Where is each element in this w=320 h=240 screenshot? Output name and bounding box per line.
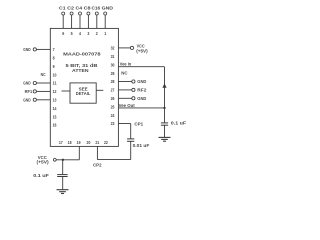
svg-text:ATTEN: ATTEN	[72, 68, 89, 73]
wire pin12 to SEE DETAIL box	[62, 90, 71, 92]
wire cap to ground (Vee rail)	[164, 125, 166, 137]
svg-text:32: 32	[111, 46, 115, 51]
terminal VCC +5V (pin 32)	[130, 46, 133, 49]
wire SEE DETAIL box to pin27	[96, 89, 103, 91]
svg-text:CP2: CP2	[93, 162, 102, 167]
svg-text:C8: C8	[84, 5, 92, 10]
wire CP2 horizontal	[97, 159, 130, 161]
terminal C1 (top)	[62, 12, 65, 15]
svg-text:19: 19	[77, 140, 81, 145]
wire CP1 vertical	[130, 124, 132, 139]
svg-text:Vee In: Vee In	[120, 61, 132, 66]
wire C16 to pin 2	[96, 15, 98, 28]
wire Vee In to rail	[118, 66, 164, 68]
arrow up on Vee rail	[162, 83, 166, 87]
terminal C2 (top)	[70, 12, 73, 15]
wire cap to ground (VCC)	[62, 177, 64, 190]
svg-text:24: 24	[111, 113, 115, 118]
wire pin32 to VCC terminal	[118, 47, 130, 49]
wire GND to pin 7	[36, 48, 50, 50]
wire C1 to pin 6	[62, 15, 64, 28]
wire to bottom VCC terminal	[56, 159, 79, 161]
terminal GND (pin 26)	[132, 97, 135, 100]
wire RF1 to pin 12	[36, 90, 50, 92]
terminal C8 (top)	[87, 12, 90, 15]
svg-text:25: 25	[111, 104, 115, 109]
terminal GND (pin 13)	[33, 98, 36, 101]
svg-text:(+5V): (+5V)	[37, 159, 50, 164]
wire GND to pin 13	[36, 99, 50, 101]
svg-text:14: 14	[53, 106, 57, 111]
capacitor 0.01 uF (CP1-CP2)	[127, 139, 134, 141]
svg-text:26: 26	[111, 96, 115, 101]
wire junction down to cap	[62, 160, 64, 175]
svg-text:13: 13	[53, 98, 57, 103]
wire C4 to pin 4	[79, 15, 81, 28]
svg-text:15: 15	[53, 114, 57, 119]
svg-text:Vee Out: Vee Out	[119, 103, 136, 108]
wire pin 21 CP2 vertical	[96, 146, 98, 159]
svg-text:(+5V): (+5V)	[136, 48, 148, 53]
svg-text:RF1: RF1	[25, 89, 33, 94]
svg-text:23: 23	[111, 121, 115, 126]
svg-text:0.1 uF: 0.1 uF	[171, 121, 187, 126]
terminal GND (pin 7)	[33, 48, 36, 51]
terminal RF1 (pin 12)	[33, 90, 36, 93]
terminal GND (top)	[104, 12, 107, 15]
wire Vee rail vertical	[164, 67, 166, 123]
terminal C16 (top)	[95, 12, 98, 15]
svg-text:GND: GND	[23, 47, 30, 52]
ground (VCC)	[57, 190, 69, 194]
svg-text:0.1 uF: 0.1 uF	[33, 173, 49, 178]
ground (Vee rail)	[159, 137, 171, 141]
svg-text:31: 31	[111, 54, 115, 59]
svg-text:0.01 uF: 0.01 uF	[133, 143, 150, 148]
svg-text:18: 18	[68, 140, 72, 145]
svg-text:11: 11	[53, 81, 57, 86]
wire pin 28 to GND terminal	[118, 81, 131, 83]
terminal RF2 (pin 27)	[132, 88, 135, 91]
terminal GND (pin 28)	[132, 80, 135, 83]
junction Vee Out / rail	[163, 107, 165, 109]
svg-text:GND: GND	[23, 81, 30, 86]
svg-text:NC: NC	[41, 72, 47, 77]
svg-text:GND: GND	[137, 79, 146, 84]
wire pin 26 to GND terminal	[118, 97, 131, 99]
svg-text:GND: GND	[102, 5, 113, 10]
svg-text:C1: C1	[59, 5, 66, 10]
wire C2 to pin 5	[71, 15, 73, 28]
svg-text:28: 28	[111, 79, 115, 84]
svg-text:CP1: CP1	[134, 121, 143, 126]
svg-text:GND: GND	[137, 96, 146, 101]
svg-text:22: 22	[104, 140, 108, 145]
inner box SEE DETAIL	[70, 83, 96, 103]
wire Vee Out to rail	[118, 107, 164, 109]
svg-text:29: 29	[111, 71, 115, 76]
svg-text:16: 16	[53, 123, 57, 128]
wire pin 19 down	[78, 146, 80, 159]
svg-text:30: 30	[111, 62, 115, 67]
wire pin 23 CP1 horizontal	[118, 123, 130, 125]
junction VCC / decoupling cap	[62, 159, 64, 161]
wire 0.01 uF cap down to corner	[130, 141, 132, 159]
svg-text:20: 20	[87, 140, 91, 145]
capacitor 0.1 uF (Vee rail)	[161, 123, 168, 125]
svg-text:12: 12	[53, 89, 57, 94]
terminal VCC +5V (bottom)	[53, 158, 56, 161]
svg-text:C2: C2	[67, 5, 75, 10]
svg-text:RF2: RF2	[137, 88, 147, 93]
svg-text:5 BIT, 31 dB: 5 BIT, 31 dB	[65, 63, 98, 68]
terminal C4 (top)	[79, 12, 82, 15]
svg-text:C4: C4	[76, 5, 83, 10]
svg-text:GND: GND	[23, 97, 30, 102]
svg-text:27: 27	[111, 88, 115, 93]
svg-text:DETAIL: DETAIL	[76, 91, 91, 96]
svg-text:C16: C16	[91, 5, 100, 10]
svg-text:21: 21	[95, 140, 99, 145]
svg-text:10: 10	[53, 72, 57, 77]
IC U1 main box	[50, 28, 118, 146]
svg-text:NC: NC	[121, 71, 128, 76]
svg-text:MAAD-007078: MAAD-007078	[63, 51, 101, 56]
terminal GND (pin 11)	[33, 81, 36, 84]
wire pin 27 to RF2 terminal	[118, 89, 131, 91]
svg-text:17: 17	[59, 140, 63, 145]
wire C8 to pin 3	[87, 15, 89, 28]
wire GND to pin 1	[104, 15, 106, 28]
capacitor 0.1 uF (VCC)	[57, 175, 67, 177]
wire GND to pin 11	[36, 82, 50, 84]
